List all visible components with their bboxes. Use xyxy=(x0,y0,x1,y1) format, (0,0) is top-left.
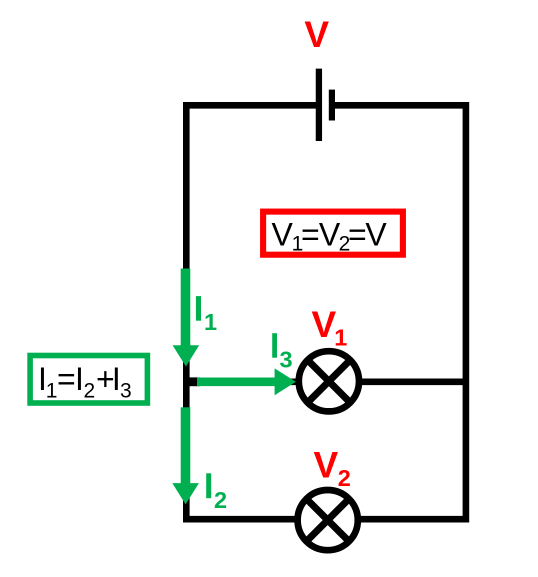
wire top-left + left side + bottom-left xyxy=(186,105,319,519)
equation box I1=I2+I3 xyxy=(30,356,147,404)
current arrow I3 xyxy=(197,368,296,395)
label I2 (current) xyxy=(206,473,227,513)
wire top-right + right side + bottom-right xyxy=(332,105,466,519)
svg-text:V: V xyxy=(272,217,294,253)
svg-text:V: V xyxy=(319,217,341,253)
label V1 (lamp 1) xyxy=(312,304,348,351)
svg-text:1: 1 xyxy=(334,325,347,351)
svg-text:=: = xyxy=(301,217,320,253)
label I1 (current) xyxy=(196,296,217,335)
svg-text:=: = xyxy=(57,361,76,397)
svg-text:1: 1 xyxy=(46,379,58,402)
label V (battery) xyxy=(304,14,329,55)
svg-text:2: 2 xyxy=(338,465,351,491)
node A junction tick xyxy=(183,377,200,386)
current arrow I2 xyxy=(172,407,199,504)
svg-text:V: V xyxy=(304,14,329,55)
svg-text:V: V xyxy=(365,217,387,253)
wire branch node to lamp V1 xyxy=(183,378,298,385)
svg-text:3: 3 xyxy=(280,346,293,372)
svg-text:3: 3 xyxy=(120,379,132,402)
equation box V1=V2=V xyxy=(263,212,403,256)
lamp V2 xyxy=(298,490,358,550)
wire lamp V1 to right side xyxy=(360,378,466,385)
label V2 (lamp 2) xyxy=(314,445,351,491)
lamp V1 xyxy=(299,351,359,411)
svg-text:1: 1 xyxy=(204,309,217,335)
svg-text:V: V xyxy=(314,445,339,486)
svg-text:V: V xyxy=(312,304,337,345)
current arrow I1 xyxy=(173,269,200,367)
svg-text:2: 2 xyxy=(84,379,96,402)
svg-text:2: 2 xyxy=(214,487,227,513)
battery V (cell) xyxy=(319,69,332,141)
svg-text:=: = xyxy=(348,217,367,253)
label I3 (current) xyxy=(272,333,292,372)
